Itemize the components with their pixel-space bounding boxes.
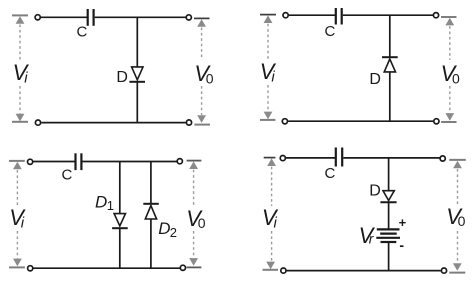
label + (battery positive) <box>399 215 407 230</box>
label D2 <box>158 219 177 240</box>
node terminal bottom-right (circuit 2) <box>434 119 439 124</box>
label C (circuit 2) <box>325 23 336 40</box>
wire branch D1 lower <box>119 228 121 268</box>
diode D (circuit 4, pointing down) <box>380 191 396 203</box>
wire capacitor to output (circuit 4) <box>343 157 440 159</box>
diode D (circuit 2, pointing up) <box>382 57 398 72</box>
wire top-left horizontal (circuit 3) <box>33 161 75 163</box>
node terminal top-left (circuit 1) <box>35 15 40 20</box>
label Vi (circuit 4) <box>262 205 279 232</box>
svg-text:i: i <box>21 215 25 232</box>
wire branch D2 lower <box>150 219 152 268</box>
label D (circuit 1) <box>116 69 128 86</box>
node terminal top-left (circuit 2) <box>283 13 288 18</box>
svg-text:0: 0 <box>452 70 460 86</box>
wire vertical branch upper (circuit 4) <box>388 158 390 191</box>
wire vertical branch lower (diode to bottom rail) <box>136 82 138 123</box>
node terminal top-right (circuit 4) <box>440 156 445 161</box>
voltage arrow Vi (circuit 3) <box>9 161 25 268</box>
wire capacitor to output (top) <box>95 16 187 18</box>
voltage arrow V0 (circuit 4) <box>449 160 466 273</box>
wire vertical branch upper (junction to diode) <box>136 17 138 67</box>
wire battery to bottom rail (circuit 4) <box>388 242 390 271</box>
capacitor C3 <box>76 153 82 170</box>
label Vi (circuit 3) <box>9 205 26 232</box>
wire diode to battery (circuit 4) <box>388 202 390 229</box>
label Vr <box>359 223 376 248</box>
label Vi (circuit 1) <box>13 60 30 87</box>
svg-text:D: D <box>116 69 128 86</box>
label D (circuit 2) <box>369 71 381 88</box>
node terminal top-right (circuit 1) <box>186 15 191 20</box>
svg-text:D: D <box>95 192 107 211</box>
svg-text:C: C <box>325 165 336 182</box>
wire branch D2 upper <box>150 162 152 204</box>
node terminal bottom-right (circuit 4) <box>441 268 446 273</box>
label D (circuit 4) <box>369 182 381 199</box>
label C (circuit 3) <box>62 166 73 183</box>
diode D2 (pointing up) <box>143 204 159 219</box>
svg-text:i: i <box>274 215 278 232</box>
wire capacitor to output (circuit 3) <box>83 161 178 163</box>
svg-text:-: - <box>399 237 404 253</box>
wire bottom rail (circuit 3) <box>33 267 180 269</box>
svg-text:D: D <box>158 219 170 238</box>
svg-text:0: 0 <box>206 70 214 86</box>
node terminal top-left (circuit 4) <box>280 156 285 161</box>
node terminal bottom-left (circuit 4) <box>281 268 286 273</box>
wire bottom rail (circuit 1) <box>41 122 186 124</box>
node terminal top-left (circuit 3) <box>28 159 33 164</box>
voltage arrow Vi (circuit 2) <box>260 15 276 120</box>
label V0 (circuit 1) <box>194 61 213 86</box>
svg-text:C: C <box>77 24 88 41</box>
voltage arrow V0 (circuit 3) <box>187 161 202 268</box>
label V0 (circuit 4) <box>446 204 465 229</box>
battery Vr <box>376 229 400 242</box>
svg-text:i: i <box>271 68 275 85</box>
node terminal top-right (circuit 2) <box>433 13 438 18</box>
wire bottom rail (circuit 2) <box>288 120 433 122</box>
diode D1 (pointing down) <box>112 214 128 229</box>
label C (circuit 1) <box>77 24 88 41</box>
svg-text:2: 2 <box>170 225 177 240</box>
voltage arrow V0 (circuit 2) <box>441 17 457 122</box>
svg-text:i: i <box>24 70 28 87</box>
label Vi (circuit 2) <box>260 59 277 86</box>
node terminal bottom-right (circuit 3) <box>180 265 185 270</box>
voltage arrow Vi (circuit 1) <box>12 15 28 121</box>
svg-text:1: 1 <box>107 198 114 213</box>
voltage arrow Vi (circuit 4) <box>263 158 279 270</box>
svg-text:C: C <box>325 23 336 40</box>
capacitor C2 <box>336 8 342 25</box>
label V0 (circuit 3) <box>186 206 205 231</box>
node terminal top-right (circuit 3) <box>177 159 182 164</box>
label V0 (circuit 2) <box>441 61 460 86</box>
wire branch D1 upper <box>119 162 121 214</box>
node terminal bottom-left (circuit 2) <box>282 119 287 124</box>
diode D (circuit 1, pointing down) <box>129 67 145 82</box>
svg-text:C: C <box>62 166 73 183</box>
svg-text:D: D <box>369 71 381 88</box>
node terminal bottom-left (circuit 3) <box>28 266 33 271</box>
svg-text:+: + <box>399 215 407 230</box>
wire vertical branch lower (circuit 2) <box>389 72 391 121</box>
svg-text:0: 0 <box>198 215 206 231</box>
capacitor C4 <box>336 148 342 167</box>
wire bottom rail (circuit 4) <box>287 270 441 272</box>
label D1 <box>95 192 114 213</box>
svg-text:D: D <box>369 182 381 199</box>
node terminal bottom-left (circuit 1) <box>35 120 40 125</box>
label - (battery negative) <box>399 237 404 253</box>
wire top-left horizontal (input to capacitor) <box>41 16 87 18</box>
svg-text:r: r <box>369 230 375 246</box>
node terminal bottom-right (circuit 1) <box>186 120 191 125</box>
wire capacitor to output (circuit 2) <box>343 14 434 16</box>
capacitor C1 <box>88 9 94 26</box>
svg-text:0: 0 <box>458 213 466 229</box>
wire top-left horizontal (circuit 4) <box>286 157 335 159</box>
wire top-left horizontal (circuit 2) <box>289 14 335 16</box>
wire vertical branch upper (circuit 2) <box>389 15 391 57</box>
label C (circuit 4) <box>325 165 336 182</box>
voltage arrow V0 (circuit 1) <box>194 18 210 124</box>
